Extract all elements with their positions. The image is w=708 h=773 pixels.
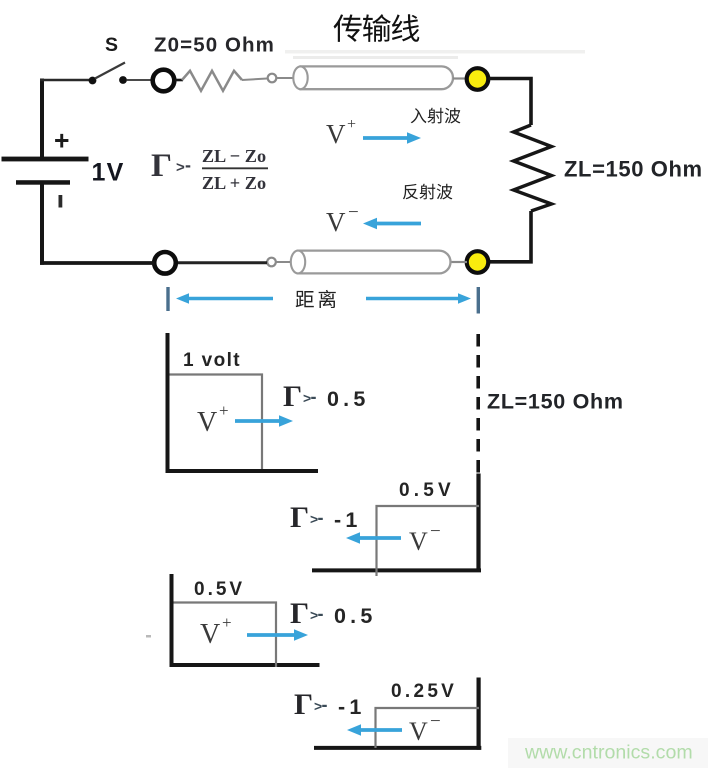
svg-text:0.5: 0.5 [334,604,377,628]
svg-text:-: - [322,695,328,715]
svg-text:V: V [409,527,428,556]
label V- wave2 [409,521,441,556]
wave2 step [377,506,480,576]
svg-text:1V: 1V [92,159,125,187]
label 距离 [296,290,336,308]
svg-text:ZL + Zo: ZL + Zo [202,173,266,193]
svg-text:-1: -1 [334,508,362,532]
wire stub to tube1 [277,77,294,79]
svg-text:-: - [318,508,324,528]
arrow wave3 [247,629,308,641]
arrow reflected [363,218,421,230]
node ring left-top [153,70,175,92]
svg-text:Γ: Γ [151,148,172,184]
dashed line ZL [476,334,480,478]
arrow distance right [366,293,471,304]
svg-text:ZL − Zo: ZL − Zo [202,146,266,166]
title 传输线 [334,14,420,42]
formula gamma = (ZL-Zo)/(ZL+Zo) [151,146,268,193]
svg-text:>: > [176,159,185,176]
svg-text:+: + [219,401,229,420]
tick left distance [166,287,169,311]
resistor ZL zigzag [514,125,552,211]
wire battery bottom vertical [40,185,44,265]
svg-text:+: + [347,116,356,133]
battery V1 1V [2,126,89,208]
label V+ wave1 [197,401,229,438]
wire node1 to ZL [489,79,532,126]
wire resistor to stub circle [242,79,267,81]
wire bottom-left horizontal [40,261,155,265]
label V- middle [326,202,359,237]
svg-text:V: V [409,717,428,746]
svg-text:V: V [200,619,220,650]
wire stub2 to tube2 [276,261,290,263]
svg-text:Γ: Γ [294,688,313,721]
svg-text:0.25V: 0.25V [391,681,457,702]
svg-text:V: V [326,207,346,237]
svg-text:0.5: 0.5 [327,387,370,411]
label 入射波 [411,108,461,124]
label 反射波 [403,184,453,200]
label gamma -1 (wave2) [290,501,362,534]
wire tube2 to node2 [451,261,467,263]
arrow wave2 [346,532,401,544]
svg-text:V: V [197,407,217,438]
svg-text:−: − [430,521,441,542]
wave1 axes [166,333,319,473]
speck left of wave3 [146,635,151,638]
stub circle top [268,74,277,83]
wave1 step [170,375,263,470]
switch S [89,63,127,85]
svg-text:-1: -1 [338,695,366,719]
svg-text:Γ: Γ [290,501,309,534]
svg-text:-: - [311,387,317,407]
tick right distance [477,287,480,314]
wire top-left horizontal [40,79,90,82]
svg-text:Γ: Γ [290,597,309,630]
wire ring to resistor [175,79,183,82]
svg-text:0.5V: 0.5V [399,480,455,501]
label V+ top [326,116,356,149]
svg-text:S: S [105,34,118,56]
svg-text:ZL=150 Ohm: ZL=150 Ohm [487,390,624,414]
watermark background [508,738,708,768]
wire battery top vertical [40,79,44,158]
arrow distance left [176,293,273,304]
wire tube1 to node1 [453,77,467,79]
svg-text:-: - [318,604,324,624]
svg-text:+: + [54,126,69,156]
transmission line tube bottom [291,251,451,274]
node yellow bottom [467,251,489,273]
label gamma -1 (wave4) [294,688,366,721]
label gamma 0.5 (wave1) [283,380,370,413]
svg-text:-: - [185,155,191,175]
node yellow top [467,68,489,90]
transmission line tube top [293,66,453,89]
wire ZL to node2 [489,211,532,262]
svg-text:0.5V: 0.5V [194,579,245,600]
wire switch to ring [127,79,152,81]
svg-text:−: − [348,202,359,223]
wave3 step [174,603,277,668]
wave2 axes [312,474,481,573]
stub circle bottom [267,258,276,267]
label V+ wave3 [200,613,232,650]
arrow wave1 [235,415,293,427]
svg-text:1 volt: 1 volt [183,350,241,371]
arrow wave4 [347,724,402,736]
arrow incident top [363,132,421,144]
wire ring2 to stub2 [176,261,267,264]
faint smudge under title [285,50,585,54]
wave4 axes [314,678,481,750]
svg-text:Γ: Γ [283,380,302,413]
svg-text:ZL=150 Ohm: ZL=150 Ohm [564,157,703,182]
node ring left-bottom [154,252,176,274]
resistor Z0 zigzag [182,71,242,91]
svg-text:V: V [326,119,346,149]
label V- wave4 [409,711,441,746]
svg-text:+: + [222,613,232,632]
svg-text:−: − [430,711,441,732]
svg-text:Z0=50 Ohm: Z0=50 Ohm [154,34,275,57]
label gamma 0.5 (wave3) [290,597,377,630]
wave3 axes [170,574,320,667]
wave4 step [376,708,480,748]
svg-text:www.cntronics.com: www.cntronics.com [524,742,693,764]
